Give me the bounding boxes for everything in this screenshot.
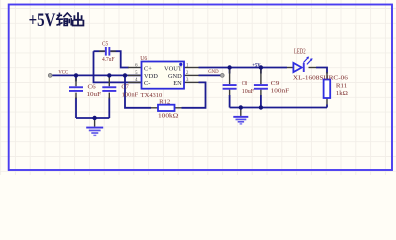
junction C9 bottom	[259, 105, 263, 109]
capacitor C7	[102, 84, 138, 99]
resistor R12	[158, 99, 178, 120]
wire R12 right to EN	[182, 82, 206, 107]
capacitor C8	[223, 80, 255, 95]
wire output ground rail	[230, 107, 327, 109]
pin U6.2 GND	[184, 74, 199, 76]
svg-text:C-: C-	[144, 80, 150, 87]
power port GND	[220, 74, 224, 78]
U6 pin numbers 6 5 4 1 2 3	[135, 63, 189, 83]
wire C7 bottom	[108, 98, 110, 119]
pin C8	[229, 69, 231, 95]
junction right ground	[239, 105, 243, 109]
svg-text:VCC: VCC	[58, 71, 68, 76]
wire C8 top	[229, 68, 231, 74]
svg-text:+5V: +5V	[252, 63, 261, 68]
resistor R11	[324, 80, 348, 99]
ground symbol left	[86, 127, 103, 136]
svg-text:R11: R11	[336, 82, 347, 89]
svg-text:1kΩ: 1kΩ	[336, 90, 348, 97]
junction C7/VCC	[107, 73, 111, 77]
wire LED cathode to R11	[316, 68, 327, 74]
wire R12 left drop	[125, 75, 151, 107]
wire C5 right to C+ pin	[110, 51, 128, 67]
svg-text:GND: GND	[208, 70, 219, 75]
pin gnd left stub	[94, 119, 96, 127]
svg-text:100nF: 100nF	[271, 88, 290, 95]
svg-text:C6: C6	[88, 84, 96, 91]
pin LED cathode	[309, 67, 317, 69]
wire layer	[52, 51, 327, 118]
pin C7	[108, 77, 110, 99]
pin U6.6 C+	[128, 67, 142, 69]
svg-text:R12: R12	[159, 99, 170, 106]
wire C6 top	[75, 75, 77, 81]
svg-text:U6: U6	[140, 55, 147, 62]
wire C8 bottom	[229, 95, 231, 108]
svg-text:10uF: 10uF	[242, 88, 255, 95]
pin R11	[326, 72, 328, 105]
title glyph shu	[56, 13, 72, 26]
svg-text:C9: C9	[271, 80, 280, 87]
capacitor C6	[69, 84, 101, 99]
junction R12/VCC	[123, 73, 127, 77]
power port VCC	[48, 74, 52, 78]
svg-text:4.7uF: 4.7uF	[102, 56, 115, 63]
svg-text:C8: C8	[242, 80, 247, 87]
wire VOUT rail	[199, 67, 288, 69]
junction dots	[74, 65, 263, 120]
LED LED2	[293, 47, 348, 81]
IC U6 TX4310 charge pump	[135, 55, 189, 99]
pin U6.5 VDD	[128, 74, 142, 76]
svg-text:XL-1608SURC-06: XL-1608SURC-06	[293, 75, 348, 82]
wire left ground rail	[76, 117, 109, 119]
svg-text:VOUT: VOUT	[164, 65, 182, 72]
svg-text:100nF: 100nF	[122, 92, 139, 99]
pin LED anode	[287, 67, 293, 69]
junction C9/VOUT	[259, 65, 263, 69]
pin R12	[151, 107, 182, 109]
capacitor C9	[254, 80, 290, 94]
svg-text:10uF: 10uF	[87, 91, 102, 98]
wire VCC rail	[52, 74, 141, 76]
pin layer (black pins)	[76, 51, 327, 126]
pin C9	[260, 69, 262, 95]
wire C6 bottom	[75, 98, 77, 119]
ground symbol right	[233, 116, 248, 125]
junction C6/VCC	[74, 73, 78, 77]
capacitor C5	[102, 40, 115, 63]
wire C9 bottom	[260, 95, 262, 108]
pin U6.3 EN	[184, 81, 199, 83]
wire C9 top	[260, 68, 262, 74]
wire R11 bottom	[326, 105, 328, 108]
svg-text:EN: EN	[173, 80, 182, 87]
junction left ground	[92, 116, 96, 120]
pin U6.1 VOUT	[184, 67, 199, 69]
pin U6.4 C-	[128, 81, 142, 83]
junction C8/VOUT	[227, 65, 231, 69]
svg-text:+5V: +5V	[29, 10, 56, 31]
pin C6	[75, 78, 77, 99]
U6 pin names C+ VDD C- VOUT GND EN	[144, 65, 182, 87]
pin gnd right stub	[240, 109, 242, 116]
wire C- net	[94, 51, 142, 82]
U6 part marker dot	[179, 63, 182, 66]
svg-text:LED2: LED2	[294, 47, 306, 55]
wire GND stub	[199, 74, 222, 76]
svg-text:100kΩ: 100kΩ	[158, 112, 178, 119]
pin C5	[99, 50, 116, 52]
svg-text:C5: C5	[102, 40, 108, 47]
wire C5 left horizontal	[94, 50, 105, 52]
svg-text:C7: C7	[121, 84, 129, 91]
svg-text:C+: C+	[144, 65, 152, 72]
title glyph chu	[73, 12, 84, 25]
